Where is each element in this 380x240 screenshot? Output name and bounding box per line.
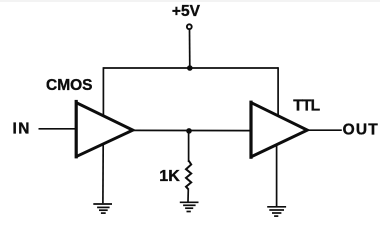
ground (below U2) [267,207,286,216]
ground (below R1) [180,202,199,211]
wire: +5V terminal to rail [189,30,191,68]
ground (below U1) [93,204,112,213]
buffer U2 (TTL gate) [251,101,308,159]
svg-text:TTL: TTL [293,97,319,114]
wire: +5V rail [103,67,278,69]
junction: +5V rail node [187,65,193,71]
svg-text:CMOS: CMOS [46,77,93,94]
resistor R1 1K [186,161,191,190]
wire: IN to U1 input [39,128,77,130]
wire: node to resistor R1 [188,131,190,162]
wire: rail to U2 Vcc pin [277,67,279,116]
wire: rail to U1 Vcc pin [102,67,104,116]
wire: U1 ground pin [102,144,104,203]
wire: R1 to ground [187,189,189,201]
svg-text:OUT: OUT [343,122,379,139]
wire: U1 output to U2 input [133,129,251,131]
svg-text:1K: 1K [159,168,180,185]
junction: R1 tap node [186,128,192,134]
+5V supply terminal [187,24,192,29]
wire: U2 output to OUT [307,129,342,131]
svg-text:+5V: +5V [172,3,201,20]
svg-text:IN: IN [13,120,31,137]
buffer U1 (CMOS gate) [76,100,133,158]
wire: U2 ground pin [276,145,278,207]
